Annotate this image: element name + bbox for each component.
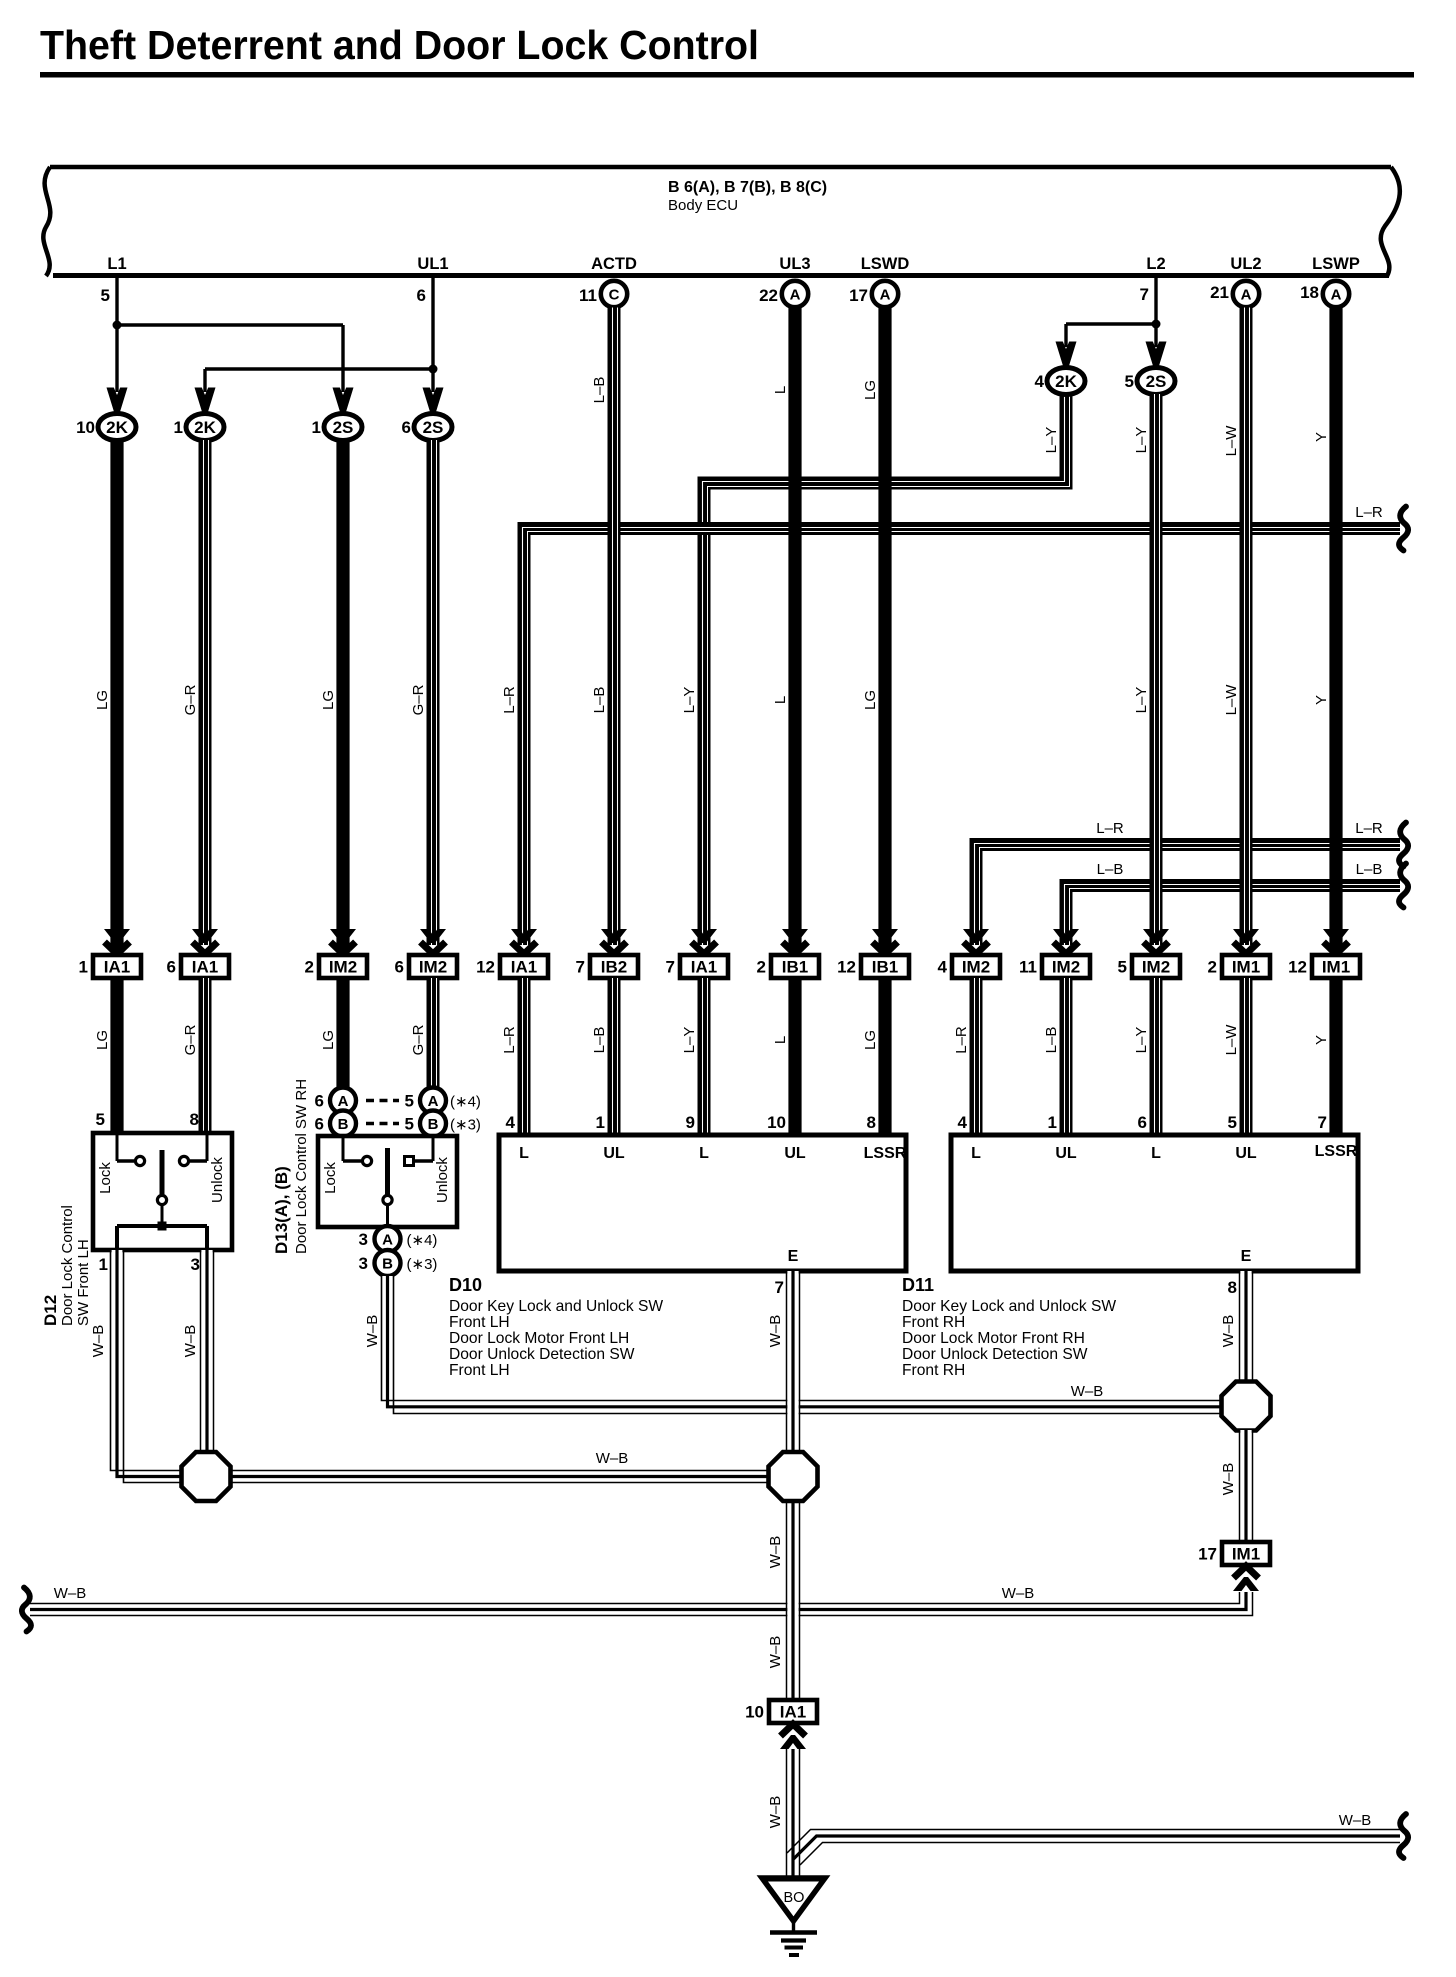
svg-text:11: 11 xyxy=(1019,958,1037,977)
junction dot on L2 branch xyxy=(1152,320,1161,329)
svg-text:Unlock: Unlock xyxy=(434,1157,451,1203)
svg-text:LG: LG xyxy=(94,1030,111,1050)
svg-text:IM2: IM2 xyxy=(1142,958,1170,977)
dashed link B-B xyxy=(366,1122,399,1126)
arrow into junction connector 6 IM2 xyxy=(420,929,446,954)
svg-text:L: L xyxy=(519,1145,529,1162)
arrow up into 17 IM1 xyxy=(1233,1566,1259,1591)
wire W-B from D10 E down to center splice xyxy=(787,1271,800,1453)
wire column 8 below junction connector xyxy=(788,978,801,1135)
svg-text:7: 7 xyxy=(1140,285,1149,304)
svg-text:A: A xyxy=(338,1093,349,1110)
junction connector box 7 IA1 xyxy=(666,955,728,978)
svg-text:Door Lock Control SW RH: Door Lock Control SW RH xyxy=(293,1079,310,1254)
wire column 3 below junction connector xyxy=(336,978,349,1088)
connector oval 2S pin 1 xyxy=(324,414,362,441)
svg-text:4: 4 xyxy=(958,1113,968,1132)
svg-text:BO: BO xyxy=(784,1890,805,1906)
svg-text:A: A xyxy=(382,1232,393,1249)
junction connector box 10 IA1 xyxy=(745,1700,817,1723)
svg-text:L: L xyxy=(971,1145,981,1162)
arrow into junction connector 4 IM2 xyxy=(963,929,989,954)
title underline rule xyxy=(40,72,1414,78)
svg-text:8: 8 xyxy=(867,1113,876,1132)
terminal circle A pin 22 UL3 xyxy=(782,281,808,307)
arrow into junction connector 2 IM2 xyxy=(330,929,356,954)
arrow into connector 2K pin 1 xyxy=(195,388,216,413)
connector oval 2S pin 5 xyxy=(1137,368,1175,395)
svg-text:L–R: L–R xyxy=(1355,504,1383,521)
D13 switch lever xyxy=(385,1148,390,1195)
svg-text:G–R: G–R xyxy=(182,684,199,715)
arrow into connector 2S pin 5 xyxy=(1146,342,1167,367)
branch wire UL1 to 2K pin1 xyxy=(205,367,433,370)
svg-text:Front LH: Front LH xyxy=(449,1362,510,1379)
junction connector box 2 IB1 xyxy=(757,955,819,978)
terminal circle A pin 17 LSWD xyxy=(872,281,898,307)
wire L-R horizontal middle to right torn edge xyxy=(975,844,1401,946)
svg-text:SW Front LH: SW Front LH xyxy=(75,1239,92,1326)
svg-text:12: 12 xyxy=(837,958,856,977)
D12 lock contact xyxy=(116,1135,119,1161)
svg-text:L–W: L–W xyxy=(1223,425,1240,457)
wire column 10 below junction connector xyxy=(970,978,983,1135)
junction connector box 6 IM2 xyxy=(395,955,457,978)
Body ECU box B 6(A), B 7(B), B 8(C) xyxy=(43,167,1400,276)
svg-text:E: E xyxy=(1241,1248,1252,1265)
svg-text:Y: Y xyxy=(1313,1035,1330,1045)
wire W-B from D12 pin 3 to left splice xyxy=(201,1250,214,1453)
junction connector box 17 IM1 xyxy=(1198,1542,1270,1565)
arrow into connector 2K pin 10 xyxy=(107,388,128,413)
svg-text:A: A xyxy=(880,287,891,304)
wire W-B right splice down to 17 IM1 xyxy=(1240,1430,1253,1542)
svg-text:2S: 2S xyxy=(423,418,444,437)
terminal circle A pin 18 LSWP xyxy=(1323,281,1349,307)
D13 unlock contact xyxy=(405,1157,414,1166)
component box D10 Door Key Lock and Unlock SW / Door Lock Motor Front LH xyxy=(499,1135,907,1271)
svg-text:21: 21 xyxy=(1210,283,1229,302)
svg-text:W–B: W–B xyxy=(1339,1812,1372,1829)
svg-text:G–R: G–R xyxy=(410,1024,427,1055)
svg-text:LG: LG xyxy=(862,690,879,710)
wire column 13 below junction connector xyxy=(1240,978,1253,1135)
junction connector box 12 IB1 xyxy=(837,955,909,978)
svg-text:D11: D11 xyxy=(902,1275,934,1295)
wire column 4 below junction connector xyxy=(427,978,440,1088)
junction connector box 2 IM1 xyxy=(1208,955,1270,978)
svg-text:7: 7 xyxy=(775,1278,784,1297)
svg-text:6: 6 xyxy=(417,286,426,305)
svg-text:Body ECU: Body ECU xyxy=(668,197,738,214)
svg-text:LG: LG xyxy=(94,690,111,710)
arrow into junction connector 5 IM2 xyxy=(1143,929,1169,954)
svg-text:W–B: W–B xyxy=(767,1536,784,1569)
svg-text:5: 5 xyxy=(1228,1113,1237,1132)
arrow into junction connector 12 IM1 xyxy=(1323,929,1349,954)
svg-text:Theft Deterrent and Door Lock: Theft Deterrent and Door Lock Control xyxy=(40,22,759,68)
torn end of L-B wire xyxy=(1399,864,1408,908)
svg-text:LSSR: LSSR xyxy=(864,1145,907,1162)
svg-text:18: 18 xyxy=(1300,283,1319,302)
svg-text:B: B xyxy=(338,1116,349,1133)
svg-text:IM1: IM1 xyxy=(1232,958,1260,977)
svg-text:1: 1 xyxy=(596,1113,605,1132)
wire L-Y column 12 (2S to IM2) xyxy=(1150,394,1163,945)
svg-text:Door Key Lock and Unlock SW: Door Key Lock and Unlock SW xyxy=(449,1298,663,1315)
svg-text:IA1: IA1 xyxy=(511,958,537,977)
svg-text:5: 5 xyxy=(1118,958,1127,977)
svg-text:A: A xyxy=(790,287,801,304)
svg-text:IM2: IM2 xyxy=(962,958,990,977)
svg-text:17: 17 xyxy=(1198,1545,1217,1564)
pin 5 lead wire from L1 xyxy=(115,277,118,392)
wire W-B from 10 IA1 down to ground xyxy=(787,1749,800,1878)
arrow into connector 2K pin 4 xyxy=(1056,342,1077,367)
junction connector box 12 IA1 xyxy=(476,955,548,978)
svg-text:12: 12 xyxy=(1288,958,1307,977)
svg-text:Front LH: Front LH xyxy=(449,1314,510,1331)
svg-text:Y: Y xyxy=(1313,432,1330,442)
svg-text:4: 4 xyxy=(938,958,948,977)
wire L-W column 13 (UL2 A to IM1) xyxy=(1240,308,1253,946)
svg-text:2S: 2S xyxy=(1146,372,1167,391)
svg-text:3: 3 xyxy=(359,1254,368,1273)
svg-text:L–W: L–W xyxy=(1223,684,1240,716)
torn end of upper L-R wire xyxy=(1399,507,1408,551)
svg-text:17: 17 xyxy=(849,286,868,305)
connector circle A pin 5 (D13 unlock side) xyxy=(420,1088,446,1114)
svg-text:IM1: IM1 xyxy=(1232,1545,1260,1564)
svg-text:LG: LG xyxy=(862,380,879,400)
wire W-B from D11 E down to right splice xyxy=(1240,1271,1253,1383)
svg-text:LSWP: LSWP xyxy=(1312,255,1360,273)
svg-text:(∗4): (∗4) xyxy=(407,1232,438,1249)
svg-text:Door Lock Motor Front LH: Door Lock Motor Front LH xyxy=(449,1330,629,1347)
svg-text:UL: UL xyxy=(603,1145,625,1162)
svg-text:5: 5 xyxy=(1125,372,1134,391)
arrow into junction connector 2 IM1 xyxy=(1233,929,1259,954)
svg-text:L–Y: L–Y xyxy=(1133,427,1150,454)
switch D13 Door Lock Control SW RH box xyxy=(318,1136,457,1227)
connector circle A pin 3 below D13 xyxy=(375,1226,401,1252)
svg-text:2K: 2K xyxy=(194,418,216,437)
svg-text:D10: D10 xyxy=(449,1275,482,1295)
svg-text:3: 3 xyxy=(191,1255,200,1274)
svg-text:7: 7 xyxy=(666,958,675,977)
svg-text:L–R: L–R xyxy=(1355,820,1383,837)
terminal circle A pin 21 UL2 xyxy=(1233,281,1259,307)
svg-text:L: L xyxy=(772,1036,789,1044)
svg-text:IM2: IM2 xyxy=(1052,958,1080,977)
wire LG column 9 (LSWD A to IB1) xyxy=(878,308,891,951)
svg-text:Door Lock Control: Door Lock Control xyxy=(59,1205,76,1326)
svg-text:L–B: L–B xyxy=(591,377,608,404)
wire column 7 below junction connector xyxy=(698,978,711,1135)
svg-text:11: 11 xyxy=(579,286,597,305)
svg-text:4: 4 xyxy=(1035,372,1045,391)
svg-text:W–B: W–B xyxy=(1220,1463,1237,1496)
svg-text:W–B: W–B xyxy=(54,1585,87,1602)
arrow into junction connector 12 IB1 xyxy=(872,929,898,954)
connector oval 2K pin 1 xyxy=(186,414,224,441)
svg-text:1: 1 xyxy=(79,958,88,977)
svg-text:LG: LG xyxy=(320,690,337,710)
svg-text:L1: L1 xyxy=(107,255,126,273)
splice octagon right xyxy=(1222,1382,1271,1431)
svg-text:A: A xyxy=(1241,287,1252,304)
branch wire L2 to 2K pin4 xyxy=(1066,322,1156,325)
svg-text:L–B: L–B xyxy=(591,1027,608,1054)
svg-text:L–W: L–W xyxy=(1223,1024,1240,1056)
junction connector box 7 IB2 xyxy=(576,955,638,978)
svg-text:C: C xyxy=(609,287,620,304)
wire column 5 below junction connector xyxy=(518,978,531,1135)
svg-text:9: 9 xyxy=(686,1113,695,1132)
svg-text:2: 2 xyxy=(1208,958,1217,977)
svg-text:W–B: W–B xyxy=(90,1325,107,1358)
svg-text:A: A xyxy=(428,1093,439,1110)
D13 lock contact xyxy=(342,1138,345,1161)
svg-text:1: 1 xyxy=(1048,1113,1057,1132)
D12 common junction dot xyxy=(158,1222,167,1231)
svg-text:W–B: W–B xyxy=(1071,1383,1104,1400)
svg-text:W–B: W–B xyxy=(596,1450,629,1467)
svg-text:IM2: IM2 xyxy=(419,958,447,977)
wire W-B left splice to center splice xyxy=(229,1471,770,1483)
arrow into connector 2S pin 6 xyxy=(423,388,444,413)
svg-text:LG: LG xyxy=(862,1030,879,1050)
svg-text:5: 5 xyxy=(101,286,110,305)
svg-text:IM1: IM1 xyxy=(1322,958,1350,977)
svg-text:5: 5 xyxy=(405,1092,414,1111)
wire L column 8 (UL3 A to IB1) xyxy=(788,308,801,951)
wire L-B column 6 (ACTD C to IB2) xyxy=(608,308,621,946)
svg-text:8: 8 xyxy=(190,1110,199,1129)
svg-text:2S: 2S xyxy=(333,418,354,437)
svg-text:IA1: IA1 xyxy=(192,958,218,977)
svg-text:L: L xyxy=(772,386,789,394)
svg-text:Door Lock Motor Front RH: Door Lock Motor Front RH xyxy=(902,1330,1085,1347)
junction connector box 11 IM2 xyxy=(1019,955,1090,978)
terminal circle C pin 11 ACTD xyxy=(601,281,627,307)
svg-text:6: 6 xyxy=(1138,1113,1147,1132)
svg-text:Front RH: Front RH xyxy=(902,1362,965,1379)
svg-text:L–Y: L–Y xyxy=(1133,1027,1150,1054)
wire W-B center splice down to 10 IA1 xyxy=(787,1500,800,1700)
svg-text:G–R: G–R xyxy=(410,684,427,715)
svg-text:D13(A), (B): D13(A), (B) xyxy=(272,1166,291,1254)
svg-text:L2: L2 xyxy=(1146,255,1165,273)
svg-text:6: 6 xyxy=(167,958,176,977)
junction connector box 1 IA1 xyxy=(79,955,141,978)
svg-text:W–B: W–B xyxy=(182,1325,199,1358)
connector circle A pin 6 (D13 lock side) xyxy=(330,1088,356,1114)
wire L-Y horizontal from 2K pin4 down-left to column 7 xyxy=(703,394,1070,945)
junction dot on UL1 branch xyxy=(429,365,438,374)
splice octagon left xyxy=(182,1452,231,1501)
arrow into junction connector 12 IA1 xyxy=(511,929,537,954)
svg-text:L–R: L–R xyxy=(501,1026,518,1054)
svg-text:L–Y: L–Y xyxy=(681,687,698,714)
wire W-B long horizontal ground bus from left torn edge xyxy=(30,1592,1253,1616)
arrow into connector 2S pin 1 xyxy=(333,388,354,413)
svg-text:L–B: L–B xyxy=(1097,861,1124,878)
svg-text:B: B xyxy=(428,1116,439,1133)
wire W-B from D12 pin 1 to left splice xyxy=(111,1250,184,1483)
svg-text:W–B: W–B xyxy=(1220,1315,1237,1348)
branch wire L1 to 2S pin1 xyxy=(117,323,343,326)
D12 switch lever xyxy=(160,1150,165,1195)
wire LG column 1 (2K to IA1) xyxy=(110,440,123,950)
svg-text:L–B: L–B xyxy=(1043,1027,1060,1054)
svg-text:L–Y: L–Y xyxy=(1043,427,1060,454)
svg-text:UL: UL xyxy=(1235,1145,1257,1162)
svg-text:(∗3): (∗3) xyxy=(407,1256,438,1273)
wire column 11 below junction connector xyxy=(1060,978,1073,1135)
svg-text:12: 12 xyxy=(476,958,495,977)
svg-text:IA1: IA1 xyxy=(780,1703,806,1722)
svg-text:Door Unlock Detection SW: Door Unlock Detection SW xyxy=(902,1346,1088,1363)
component box D11 Door Key Lock and Unlock SW / Door Lock Motor Front RH xyxy=(951,1135,1358,1271)
svg-text:L–B: L–B xyxy=(591,687,608,714)
pin 6 lead wire from UL1 xyxy=(431,277,434,392)
svg-text:6: 6 xyxy=(402,418,411,437)
wire G-R column 2 (2K to IA1) xyxy=(199,440,212,945)
svg-text:Front RH: Front RH xyxy=(902,1314,965,1331)
connector circle B pin 3 below D13 xyxy=(375,1250,401,1276)
svg-text:5: 5 xyxy=(96,1110,105,1129)
junction connector box 4 IM2 xyxy=(938,955,1000,978)
arrow into junction connector 7 IB2 xyxy=(601,929,627,954)
svg-text:10: 10 xyxy=(745,1703,764,1722)
svg-text:6: 6 xyxy=(315,1115,324,1134)
svg-text:L: L xyxy=(772,696,789,704)
svg-text:UL3: UL3 xyxy=(779,255,810,273)
connector oval 2K pin 4 xyxy=(1047,368,1085,395)
svg-text:IM2: IM2 xyxy=(329,958,357,977)
connector circle B pin 6 (D13 lock side) xyxy=(330,1111,356,1137)
svg-text:5: 5 xyxy=(405,1115,414,1134)
svg-text:10: 10 xyxy=(767,1113,786,1132)
svg-text:1: 1 xyxy=(174,418,183,437)
svg-text:7: 7 xyxy=(1318,1113,1327,1132)
svg-text:B 6(A), B 7(B), B 8(C): B 6(A), B 7(B), B 8(C) xyxy=(668,179,827,196)
torn end of W-B branch at right xyxy=(1399,1814,1408,1858)
splice octagon center xyxy=(769,1452,818,1501)
svg-text:L–R: L–R xyxy=(1096,820,1124,837)
svg-text:Lock: Lock xyxy=(97,1162,114,1194)
wire W-B from D13 pin 3 to splice right xyxy=(382,1276,1222,1414)
svg-text:LSWD: LSWD xyxy=(861,255,910,273)
svg-text:1: 1 xyxy=(99,1255,108,1274)
pin 7 lead wire from L2 xyxy=(1154,277,1157,347)
svg-text:Lock: Lock xyxy=(322,1162,339,1194)
svg-text:L–Y: L–Y xyxy=(1133,687,1150,714)
svg-text:L–B: L–B xyxy=(1356,861,1383,878)
svg-text:W–B: W–B xyxy=(767,1796,784,1829)
svg-text:IB1: IB1 xyxy=(872,958,898,977)
wire Y column 14 (LSWP A to IM1) xyxy=(1329,308,1342,951)
svg-text:4: 4 xyxy=(506,1113,516,1132)
svg-text:LG: LG xyxy=(320,1030,337,1050)
junction connector box 6 IA1 xyxy=(167,955,229,978)
arrow up into 10 IA1 xyxy=(780,1724,806,1749)
arrow into junction connector 11 IM2 xyxy=(1053,929,1079,954)
svg-text:22: 22 xyxy=(759,286,778,305)
svg-text:IB1: IB1 xyxy=(782,958,808,977)
junction connector box 2 IM2 xyxy=(305,955,367,978)
svg-text:2K: 2K xyxy=(106,418,128,437)
dashed link A-A xyxy=(366,1099,399,1103)
svg-text:7: 7 xyxy=(576,958,585,977)
svg-text:UL2: UL2 xyxy=(1230,255,1261,273)
svg-text:ACTD: ACTD xyxy=(591,255,637,273)
arrow into junction connector 2 IB1 xyxy=(782,929,808,954)
svg-text:E: E xyxy=(788,1248,799,1265)
junction connector box 5 IM2 xyxy=(1118,955,1180,978)
svg-text:6: 6 xyxy=(315,1092,324,1111)
svg-text:L: L xyxy=(1151,1145,1161,1162)
svg-text:2: 2 xyxy=(305,958,314,977)
D12 common bus to pins 1 and 3 xyxy=(117,1224,207,1228)
svg-text:IA1: IA1 xyxy=(691,958,717,977)
switch D12 Door Lock Control SW Front LH box xyxy=(93,1110,232,1250)
junction dot on L1 branch xyxy=(113,321,122,330)
svg-text:W–B: W–B xyxy=(767,1315,784,1348)
svg-text:IB2: IB2 xyxy=(601,958,627,977)
svg-text:LSSR: LSSR xyxy=(1315,1143,1358,1160)
arrow into junction connector 1 IA1 xyxy=(104,929,130,954)
connector oval 2S pin 6 xyxy=(414,414,452,441)
connector circle B pin 5 (D13 unlock side) xyxy=(420,1111,446,1137)
svg-text:L: L xyxy=(699,1145,709,1162)
svg-text:Y: Y xyxy=(1313,695,1330,705)
svg-text:L–R: L–R xyxy=(501,686,518,714)
ground symbol BO xyxy=(762,1876,825,1956)
svg-text:6: 6 xyxy=(395,958,404,977)
svg-text:W–B: W–B xyxy=(364,1315,381,1348)
wire column 1 below junction connector xyxy=(110,978,123,1133)
wire L-B horizontal to right torn edge xyxy=(1065,885,1401,946)
svg-text:(∗4): (∗4) xyxy=(450,1094,481,1111)
wire L-R horizontal upper to right torn edge xyxy=(523,528,1401,946)
D12 unlock contact xyxy=(206,1135,209,1161)
svg-text:2K: 2K xyxy=(1055,372,1077,391)
wire W-B branch to right torn edge xyxy=(787,1830,1400,1866)
arrow into junction connector 7 IA1 xyxy=(691,929,717,954)
wire column 2 below junction connector xyxy=(199,978,212,1133)
svg-text:IA1: IA1 xyxy=(104,958,130,977)
svg-text:B: B xyxy=(382,1256,393,1273)
junction connector box 12 IM1 xyxy=(1288,955,1360,978)
wire LG column 3 (2S to IM2) xyxy=(336,440,349,950)
wire column 14 below junction connector xyxy=(1329,978,1342,1135)
svg-text:2: 2 xyxy=(757,958,766,977)
svg-text:UL1: UL1 xyxy=(417,255,448,273)
connector oval 2K pin 10 xyxy=(98,414,136,441)
wire column 9 below junction connector xyxy=(878,978,891,1135)
torn end of middle L-R wire xyxy=(1399,823,1408,867)
torn end of ground bus at left xyxy=(22,1588,31,1632)
arrow into junction connector 6 IA1 xyxy=(192,929,218,954)
svg-text:G–R: G–R xyxy=(182,1024,199,1055)
svg-text:A: A xyxy=(1331,287,1342,304)
wire column 6 below junction connector xyxy=(608,978,621,1135)
svg-text:Unlock: Unlock xyxy=(209,1157,226,1203)
svg-text:(∗3): (∗3) xyxy=(450,1117,481,1134)
svg-text:UL: UL xyxy=(1055,1145,1077,1162)
